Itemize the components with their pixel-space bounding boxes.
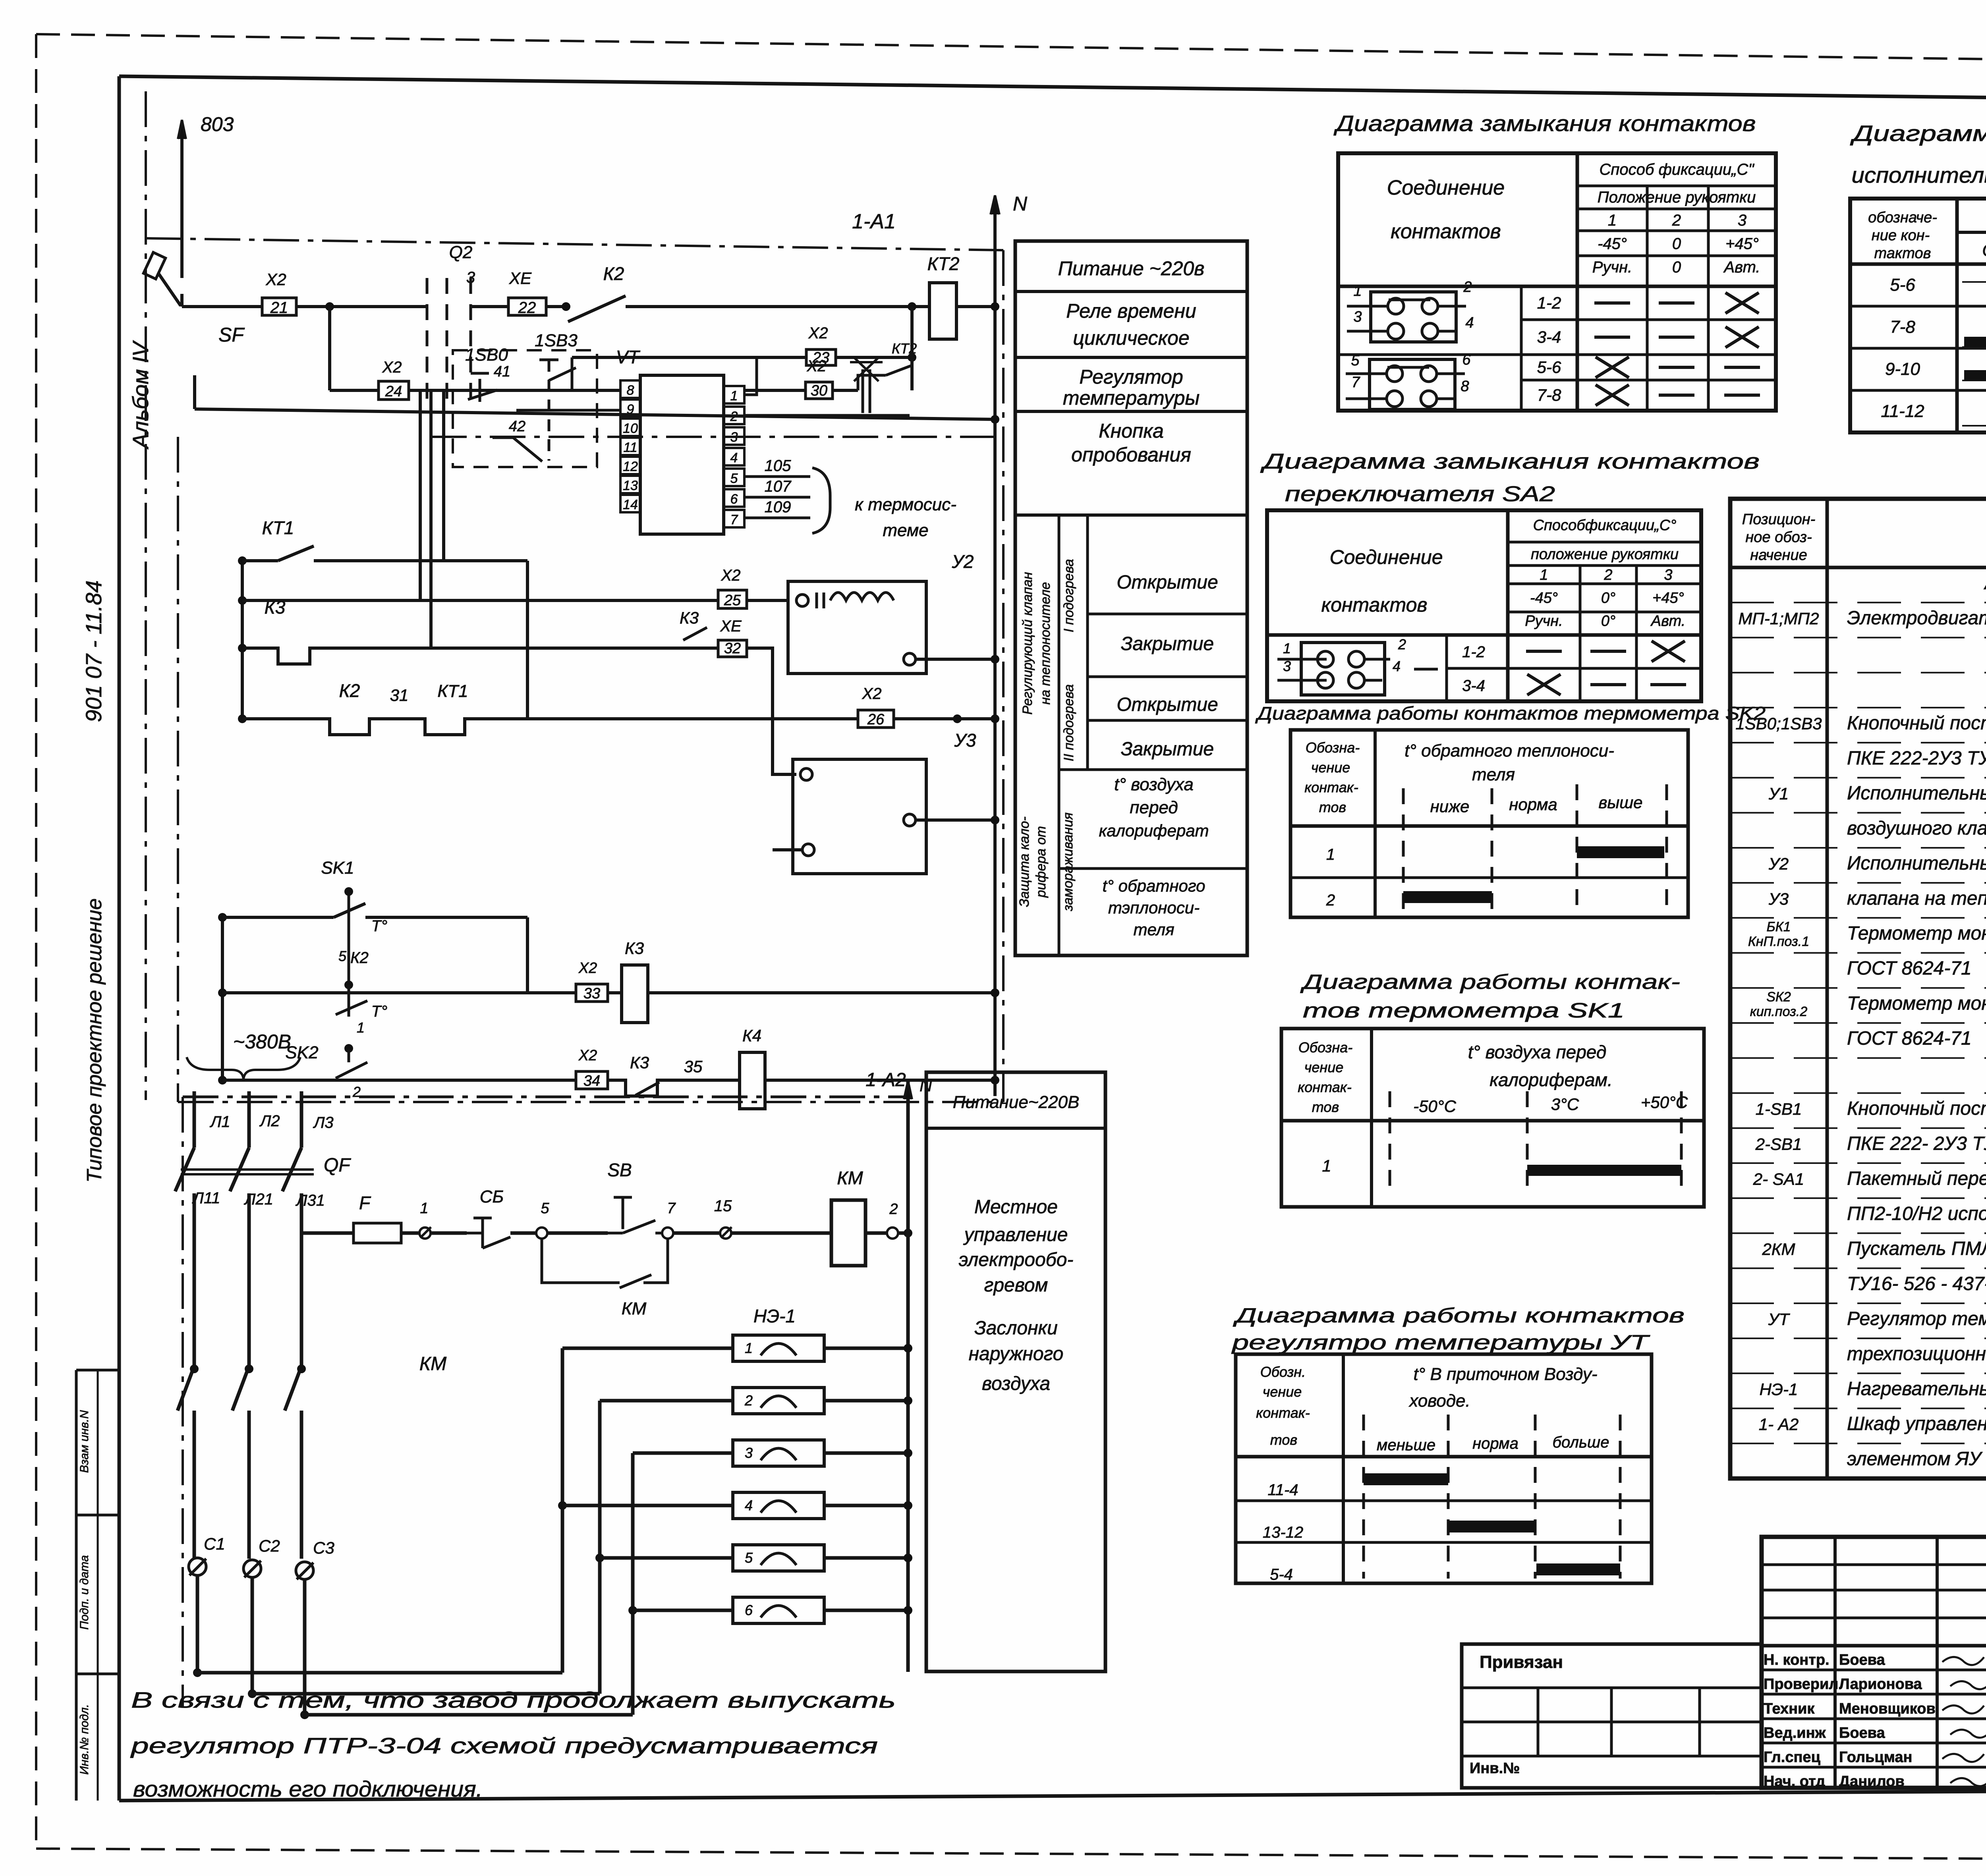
svg-text:Т°: Т° <box>371 917 387 935</box>
svg-text:Ручн.: Ручн. <box>1525 613 1563 629</box>
svg-text:циклическое: циклическое <box>1073 327 1189 349</box>
svg-text:контак-: контак- <box>1298 1079 1351 1095</box>
svg-text:чение: чение <box>1311 759 1350 776</box>
svg-text:Х2: Х2 <box>578 1047 597 1064</box>
svg-text:Обозна-: Обозна- <box>1306 739 1360 756</box>
svg-text:Л11: Л11 <box>192 1189 220 1207</box>
svg-text:температуры: температуры <box>1063 387 1200 409</box>
svg-text:5: 5 <box>745 1550 753 1566</box>
svg-text:5-6: 5-6 <box>1537 358 1561 376</box>
svg-text:4: 4 <box>745 1497 753 1513</box>
svg-text:Диаграмма работы контактов: Диаграмма работы контактов <box>1850 121 1986 146</box>
svg-text:2: 2 <box>1603 567 1612 583</box>
svg-text:34: 34 <box>583 1073 600 1089</box>
svg-text:Л21: Л21 <box>243 1191 273 1208</box>
svg-text:ное обоз-: ное обоз- <box>1745 529 1812 546</box>
svg-text:регулятро температуры УТ: регулятро температуры УТ <box>1231 1331 1650 1354</box>
svg-text:13-12: 13-12 <box>1263 1524 1303 1541</box>
svg-text:Гл.спец: Гл.спец <box>1764 1749 1821 1766</box>
svg-text:11: 11 <box>623 440 637 455</box>
svg-text:1: 1 <box>1540 567 1548 583</box>
svg-text:теля: теля <box>1133 920 1174 939</box>
svg-text:тов: тов <box>1312 1099 1339 1115</box>
svg-text:КТ2: КТ2 <box>927 253 960 274</box>
svg-text:В связи с тем, что завод п: В связи с тем, что завод продолжает выпу… <box>131 1687 896 1712</box>
svg-text:К3: К3 <box>265 597 286 618</box>
svg-text:УТ: УТ <box>1768 1310 1791 1329</box>
svg-text:8: 8 <box>1461 378 1469 395</box>
svg-text:Кнопка: Кнопка <box>1099 420 1164 442</box>
svg-text:Открытие: Открытие <box>1117 572 1218 593</box>
svg-text:С3: С3 <box>313 1538 334 1557</box>
svg-text:1-2: 1-2 <box>1462 643 1485 661</box>
svg-text:Инв.№ подл.: Инв.№ подл. <box>78 1704 91 1775</box>
svg-text:ниже: ниже <box>1430 797 1470 816</box>
svg-text:опробования: опробования <box>1071 444 1191 466</box>
svg-text:2: 2 <box>744 1392 753 1409</box>
svg-text:9-10: 9-10 <box>1885 359 1920 379</box>
svg-text:управление: управление <box>963 1224 1068 1245</box>
svg-text:7: 7 <box>730 512 738 527</box>
svg-text:трехпозиционный 7М-8: трехпозиционный 7М-8 <box>1847 1343 1986 1365</box>
svg-text:1: 1 <box>1283 640 1291 656</box>
svg-text:Диаграмма работы контактов т: Диаграмма работы контактов термометра SK… <box>1255 703 1766 724</box>
svg-text:Х2: Х2 <box>862 685 882 703</box>
svg-text:Открыто: Открыто <box>1982 241 1986 260</box>
svg-text:замораживания: замораживания <box>1061 813 1076 911</box>
svg-text:КТ2: КТ2 <box>892 340 917 357</box>
svg-text:ховоде.: ховоде. <box>1408 1391 1470 1411</box>
svg-text:3: 3 <box>1283 658 1291 674</box>
svg-text:Шкаф управления нагревательн: Шкаф управления нагревательным <box>1847 1413 1986 1434</box>
svg-text:1-2: 1-2 <box>1537 293 1561 312</box>
svg-text:41: 41 <box>494 363 510 380</box>
svg-text:тактов: тактов <box>1874 245 1931 262</box>
svg-text:тов термометра SK1: тов термометра SK1 <box>1303 999 1625 1022</box>
svg-text:Подп. и дата: Подп. и дата <box>78 1555 91 1630</box>
svg-text:Защита кало-: Защита кало- <box>1017 816 1032 907</box>
svg-text:SB: SB <box>607 1160 632 1180</box>
svg-text:Питание~220В: Питание~220В <box>953 1092 1080 1112</box>
svg-text:Вед.инж: Вед.инж <box>1764 1725 1826 1741</box>
svg-text:11-4: 11-4 <box>1267 1481 1298 1499</box>
svg-text:4: 4 <box>1393 658 1401 674</box>
svg-text:Типовое проектное решение: Типовое проектное решение <box>83 898 106 1183</box>
svg-text:1: 1 <box>1608 212 1617 229</box>
svg-text:тэплоноси-: тэплоноси- <box>1108 898 1200 917</box>
svg-text:Данилов: Данилов <box>1839 1773 1905 1790</box>
svg-text:Питание ~220в: Питание ~220в <box>1058 257 1205 280</box>
svg-text:VT: VT <box>616 347 641 367</box>
svg-text:I подогрева: I подогрева <box>1061 559 1076 633</box>
svg-text:5: 5 <box>541 1200 549 1217</box>
svg-text:С1: С1 <box>204 1534 225 1553</box>
svg-text:0: 0 <box>1672 235 1681 253</box>
svg-text:t° В приточном Возду-: t° В приточном Возду- <box>1413 1365 1597 1384</box>
svg-text:КМ: КМ <box>837 1168 863 1188</box>
svg-text:норма: норма <box>1472 1435 1518 1452</box>
svg-text:КТ1: КТ1 <box>262 517 294 538</box>
svg-text:Термометр монометрический ТПГ-: Термометр монометрический ТПГ-СК <box>1847 923 1986 944</box>
svg-text:5-4: 5-4 <box>1270 1566 1293 1583</box>
svg-text:Пускатель ПМЛ-1: Пускатель ПМЛ-1 <box>1847 1238 1986 1259</box>
svg-text:Способ фиксации„С": Способ фиксации„С" <box>1599 161 1754 178</box>
svg-text:гревом: гревом <box>984 1275 1048 1296</box>
svg-text:N: N <box>1013 193 1028 215</box>
svg-text:ТУ16- 526 - 437- 78: ТУ16- 526 - 437- 78 <box>1847 1273 1986 1294</box>
svg-text:42: 42 <box>509 418 525 435</box>
svg-text:Соединение: Соединение <box>1329 546 1443 568</box>
svg-text:Реле времени: Реле времени <box>1066 300 1196 322</box>
svg-text:Альбом IV: Альбом IV <box>128 340 153 450</box>
svg-text:2: 2 <box>1326 892 1335 909</box>
svg-text:109: 109 <box>765 498 791 516</box>
svg-text:ГОСТ 8624-71: ГОСТ 8624-71 <box>1847 1028 1972 1049</box>
svg-text:3-4: 3-4 <box>1462 677 1485 695</box>
svg-text:Открытие: Открытие <box>1117 694 1218 715</box>
svg-text:КнП.поз.1: КнП.поз.1 <box>1748 934 1809 949</box>
svg-text:6: 6 <box>730 492 738 507</box>
svg-text:1: 1 <box>1326 846 1335 863</box>
svg-text:калориферам.: калориферам. <box>1489 1069 1613 1090</box>
svg-text:F: F <box>359 1193 371 1213</box>
svg-text:К2: К2 <box>339 680 360 701</box>
svg-text:2: 2 <box>1463 279 1472 295</box>
svg-text:перед: перед <box>1130 798 1178 817</box>
svg-text:0: 0 <box>1672 259 1681 276</box>
svg-text:выше: выше <box>1598 793 1642 812</box>
svg-text:тов: тов <box>1270 1432 1297 1448</box>
svg-text:НЭ-1: НЭ-1 <box>753 1306 796 1326</box>
svg-text:5-6: 5-6 <box>1890 275 1915 295</box>
svg-text:SK1: SK1 <box>321 858 354 878</box>
svg-text:Нач. отд: Нач. отд <box>1764 1773 1825 1790</box>
svg-text:7-8: 7-8 <box>1537 386 1561 404</box>
svg-text:элементом ЯУ 5111- 03 А2И: элементом ЯУ 5111- 03 А2И <box>1847 1448 1986 1469</box>
svg-text:У2: У2 <box>952 551 974 572</box>
svg-text:5: 5 <box>1351 352 1360 369</box>
svg-text:~380В: ~380В <box>233 1031 291 1053</box>
svg-text:2КМ: 2КМ <box>1762 1240 1795 1258</box>
svg-text:БК1: БК1 <box>1766 919 1791 934</box>
svg-text:24: 24 <box>385 383 402 400</box>
svg-text:t° обратного теплоноси-: t° обратного теплоноси- <box>1404 741 1614 760</box>
svg-text:У3: У3 <box>954 730 976 751</box>
svg-text:3: 3 <box>1353 309 1362 325</box>
svg-text:Техник: Техник <box>1764 1700 1815 1717</box>
svg-text:14: 14 <box>623 497 638 512</box>
svg-text:воздушного клапана: воздушного клапана <box>1847 818 1986 839</box>
svg-text:кип.поз.2: кип.поз.2 <box>1750 1004 1808 1019</box>
svg-text:7: 7 <box>667 1200 676 1217</box>
svg-text:1SB3: 1SB3 <box>535 331 578 350</box>
svg-text:SК2: SК2 <box>1766 989 1791 1004</box>
svg-text:7-8: 7-8 <box>1890 317 1915 337</box>
svg-text:t° воздуха: t° воздуха <box>1114 775 1194 794</box>
svg-text:Л1: Л1 <box>209 1113 230 1131</box>
svg-text:Инв.№: Инв.№ <box>1470 1760 1520 1777</box>
svg-text:-45°: -45° <box>1598 235 1627 253</box>
svg-text:II подогрева: II подогрева <box>1061 684 1076 761</box>
svg-text:Закрытие: Закрытие <box>1121 739 1214 760</box>
svg-text:0°: 0° <box>1601 590 1615 606</box>
svg-text:Х2: Х2 <box>721 567 741 584</box>
svg-text:к термосис-: к термосис- <box>855 495 956 514</box>
svg-text:31: 31 <box>390 686 409 704</box>
svg-text:электрообо-: электрообо- <box>959 1249 1074 1270</box>
svg-text:3°C: 3°C <box>1551 1095 1579 1114</box>
svg-text:ХЕ: ХЕ <box>720 618 742 635</box>
svg-text:2: 2 <box>1398 636 1406 652</box>
svg-text:1: 1 <box>1322 1156 1331 1175</box>
svg-text:Привязан: Привязан <box>1480 1652 1563 1672</box>
svg-text:ние кон-: ние кон- <box>1872 227 1930 244</box>
svg-text:QF: QF <box>324 1155 351 1176</box>
svg-text:1SB0;1SB3: 1SB0;1SB3 <box>1735 714 1822 733</box>
svg-text:Меновщиков: Меновщиков <box>1839 1700 1936 1717</box>
svg-text:3: 3 <box>1738 212 1746 229</box>
svg-text:положение рукоятки: положение рукоятки <box>1531 546 1679 563</box>
svg-text:ПКЕ 222- 2У3 ТУ 16. 526.: ПКЕ 222- 2У3 ТУ 16. 526. 217-78 <box>1847 1133 1986 1154</box>
svg-text:К3: К3 <box>630 1053 649 1072</box>
svg-text:Авт.: Авт. <box>1723 259 1760 276</box>
svg-text:Регулятор: Регулятор <box>1079 366 1183 388</box>
svg-text:1: 1 <box>357 1019 365 1036</box>
svg-text:Л3: Л3 <box>313 1114 334 1131</box>
svg-text:Обозн.: Обозн. <box>1260 1364 1306 1380</box>
svg-text:переключателя SA2: переключателя SA2 <box>1285 482 1555 506</box>
svg-text:Диаграмма замыкания контакто: Диаграмма замыкания контактов <box>1333 111 1756 136</box>
svg-text:30: 30 <box>811 382 827 399</box>
svg-text:начение: начение <box>1750 547 1807 564</box>
svg-text:НЭ-1: НЭ-1 <box>1760 1380 1798 1399</box>
svg-text:К4: К4 <box>742 1026 761 1045</box>
svg-text:Кнопочный пост управления: Кнопочный пост управления <box>1847 1098 1986 1119</box>
svg-text:Q2: Q2 <box>449 243 473 262</box>
svg-text:1-SВ1: 1-SВ1 <box>1756 1100 1802 1118</box>
svg-text:Л31: Л31 <box>295 1192 325 1209</box>
svg-text:2- SА1: 2- SА1 <box>1753 1170 1804 1189</box>
svg-text:2: 2 <box>889 1201 898 1218</box>
svg-text:1- А2: 1- А2 <box>1759 1415 1799 1434</box>
svg-text:У2: У2 <box>1768 855 1789 873</box>
svg-text:Обозна-: Обозна- <box>1298 1039 1352 1056</box>
svg-text:КМ: КМ <box>419 1353 446 1374</box>
svg-text:Исполнительный механизм: Исполнительный механизм <box>1847 783 1986 804</box>
svg-text:чение: чение <box>1263 1384 1302 1400</box>
svg-text:К2: К2 <box>350 949 369 967</box>
svg-text:ХЕ: ХЕ <box>509 269 532 288</box>
svg-text:меньше: меньше <box>1377 1436 1435 1454</box>
svg-text:2-SВ1: 2-SВ1 <box>1755 1135 1802 1153</box>
svg-text:3: 3 <box>745 1445 753 1461</box>
svg-text:33: 33 <box>583 985 600 1002</box>
svg-text:Закрытие: Закрытие <box>1121 633 1214 654</box>
svg-text:3: 3 <box>1664 567 1672 583</box>
svg-text:25: 25 <box>724 592 741 609</box>
svg-text:Позицион-: Позицион- <box>1742 511 1816 528</box>
svg-text:ПКЕ 222-2У3 ТУ16. 5.26.21: ПКЕ 222-2У3 ТУ16. 5.26.217-78 <box>1847 748 1986 769</box>
svg-text:Положение рукоятки: Положение рукоятки <box>1598 189 1756 206</box>
svg-text:теме: теме <box>883 521 928 540</box>
svg-text:ГОСТ 8624-71: ГОСТ 8624-71 <box>1847 958 1972 979</box>
svg-text:-45°: -45° <box>1530 590 1558 606</box>
svg-text:Л2: Л2 <box>259 1112 280 1130</box>
svg-text:1-А2: 1-А2 <box>865 1069 906 1090</box>
svg-text:26: 26 <box>867 711 885 728</box>
svg-text:Авт.: Авт. <box>1650 613 1686 629</box>
svg-text:SF: SF <box>218 324 245 346</box>
svg-text:15: 15 <box>714 1197 732 1215</box>
svg-text:возможность его подключения.: возможность его подключения. <box>133 1776 483 1801</box>
svg-text:регулятор ПТР-3-04 схемой п: регулятор ПТР-3-04 схемой предусматривае… <box>130 1733 878 1758</box>
svg-text:клапана на теплоносителе: клапана на теплоносителе <box>1847 888 1986 909</box>
svg-text:контактов: контактов <box>1391 220 1501 243</box>
svg-text:К3: К3 <box>680 608 699 627</box>
svg-text:1: 1 <box>730 388 738 403</box>
svg-text:8: 8 <box>627 383 634 398</box>
svg-text:3-4: 3-4 <box>1537 328 1561 346</box>
svg-text:35: 35 <box>684 1057 703 1076</box>
svg-text:5: 5 <box>338 948 347 964</box>
svg-text:наружного: наружного <box>969 1343 1064 1365</box>
svg-text:6: 6 <box>1462 351 1471 368</box>
svg-text:контактов: контактов <box>1321 594 1428 616</box>
svg-text:Электродвигатель 4А132S6 ; 4 к: Электродвигатель 4А132S6 ; 4 кВт. ~380В <box>1847 608 1986 629</box>
svg-text:1-А1: 1-А1 <box>852 210 896 233</box>
svg-text:+45°: +45° <box>1725 235 1759 253</box>
svg-text:-50°C: -50°C <box>1413 1097 1456 1116</box>
svg-text:больше: больше <box>1553 1434 1609 1451</box>
svg-text:У1: У1 <box>1768 784 1789 803</box>
svg-text:Ручн.: Ручн. <box>1592 259 1632 276</box>
svg-text:контак-: контак- <box>1256 1405 1310 1421</box>
svg-text:Х2: Х2 <box>807 357 827 375</box>
svg-text:1SB0: 1SB0 <box>465 345 508 365</box>
svg-text:Взам инв.N: Взам инв.N <box>78 1410 91 1473</box>
svg-text:Соединение: Соединение <box>1387 176 1505 199</box>
svg-text:Способфиксации„С°: Способфиксации„С° <box>1533 517 1677 534</box>
svg-text:Н. контр.: Н. контр. <box>1764 1652 1830 1668</box>
svg-text:чение: чение <box>1304 1059 1344 1075</box>
svg-text:исполнительного механизма: исполнительного механизма У1 <box>1852 162 1986 187</box>
svg-text:Местное: Местное <box>974 1197 1058 1218</box>
svg-text:t° обратного: t° обратного <box>1103 876 1206 895</box>
svg-text:Исполнительный механизм: Исполнительный механизм <box>1847 853 1986 874</box>
svg-text:Боева: Боева <box>1839 1725 1886 1741</box>
svg-text:К3: К3 <box>625 939 644 957</box>
svg-text:калориферат: калориферат <box>1099 821 1209 840</box>
svg-text:К2: К2 <box>603 263 624 284</box>
svg-text:2: 2 <box>1672 212 1681 229</box>
svg-text:1: 1 <box>1353 283 1362 299</box>
svg-text:11-12: 11-12 <box>1881 401 1924 421</box>
svg-text:Х2: Х2 <box>578 960 597 977</box>
svg-text:МП-1;МП2: МП-1;МП2 <box>1738 609 1819 628</box>
svg-text:6: 6 <box>745 1602 753 1618</box>
svg-text:Ларионова: Ларионова <box>1839 1676 1922 1693</box>
svg-text:Диаграмма замыкания контакто: Диаграмма замыкания контактов <box>1260 450 1760 473</box>
svg-text:Проверил: Проверил <box>1764 1676 1838 1693</box>
svg-text:норма: норма <box>1509 795 1557 814</box>
svg-text:Гольцман: Гольцман <box>1839 1749 1912 1766</box>
svg-text:Термометр монометрический ТПГ-: Термометр монометрический ТПГ-СК <box>1847 993 1986 1014</box>
svg-text:Х2: Х2 <box>265 270 286 289</box>
svg-text:10: 10 <box>623 421 638 436</box>
svg-text:Кнопочный пост управления: Кнопочный пост управления <box>1847 713 1986 734</box>
svg-text:контак-: контак- <box>1304 779 1358 795</box>
svg-text:107: 107 <box>765 478 792 495</box>
svg-text:21: 21 <box>270 299 288 317</box>
svg-text:Заслонки: Заслонки <box>974 1318 1058 1339</box>
svg-text:рифера от: рифера от <box>1034 826 1049 898</box>
svg-text:22: 22 <box>518 299 536 317</box>
svg-text:803: 803 <box>201 113 234 135</box>
svg-text:1: 1 <box>420 1200 428 1217</box>
svg-text:0°: 0° <box>1601 613 1615 629</box>
svg-text:105: 105 <box>765 457 791 475</box>
svg-text:воздуха: воздуха <box>982 1373 1050 1394</box>
svg-text:t° воздуха перед: t° воздуха перед <box>1468 1042 1607 1062</box>
svg-text:теля: теля <box>1472 765 1515 784</box>
svg-text:ПП2-10/Н2 исполнение IV ОСТ 1: ПП2-10/Н2 исполнение IV ОСТ 16. 0,526.00… <box>1847 1203 1986 1224</box>
svg-text:3: 3 <box>466 269 475 286</box>
svg-text:32: 32 <box>724 640 741 657</box>
svg-text:С2: С2 <box>259 1536 280 1555</box>
svg-text:Диаграмма работы контактов: Диаграмма работы контактов <box>1233 1304 1685 1327</box>
svg-text:901 07 - 11.84: 901 07 - 11.84 <box>81 580 106 722</box>
svg-text:КМ: КМ <box>622 1299 647 1318</box>
svg-text:13: 13 <box>623 478 638 493</box>
svg-text:4: 4 <box>1465 315 1474 331</box>
svg-text:5: 5 <box>730 471 738 486</box>
svg-text:на теплоносителе: на теплоносителе <box>1038 582 1053 705</box>
svg-text:Т°: Т° <box>371 1003 387 1020</box>
svg-text:4: 4 <box>730 450 738 465</box>
svg-text:Регулятор температуры полупров: Регулятор температуры полупроводниковый <box>1847 1309 1986 1330</box>
svg-text:Регулирующий клапан: Регулирующий клапан <box>1020 572 1035 715</box>
svg-text:тов: тов <box>1319 799 1346 815</box>
svg-text:Х2: Х2 <box>808 324 828 342</box>
svg-text:7: 7 <box>1351 374 1360 391</box>
svg-text:Диаграмма работы контак-: Диаграмма работы контак- <box>1300 971 1680 994</box>
svg-text:Нагревательный элемент N =: Нагревательный элемент N = 3,8 кВт <box>1847 1378 1986 1399</box>
svg-text:Боева: Боева <box>1839 1652 1886 1668</box>
svg-text:12: 12 <box>623 459 638 474</box>
svg-text:СБ: СБ <box>480 1187 504 1206</box>
svg-text:КТ1: КТ1 <box>437 681 468 701</box>
svg-text:обозначе-: обозначе- <box>1868 209 1937 226</box>
svg-text:У3: У3 <box>1768 890 1789 908</box>
svg-text:1: 1 <box>745 1340 753 1356</box>
svg-text:+45°: +45° <box>1652 590 1684 606</box>
svg-text:Пакетный переключатель: Пакетный переключатель <box>1847 1168 1986 1189</box>
svg-text:Х2: Х2 <box>382 359 402 376</box>
